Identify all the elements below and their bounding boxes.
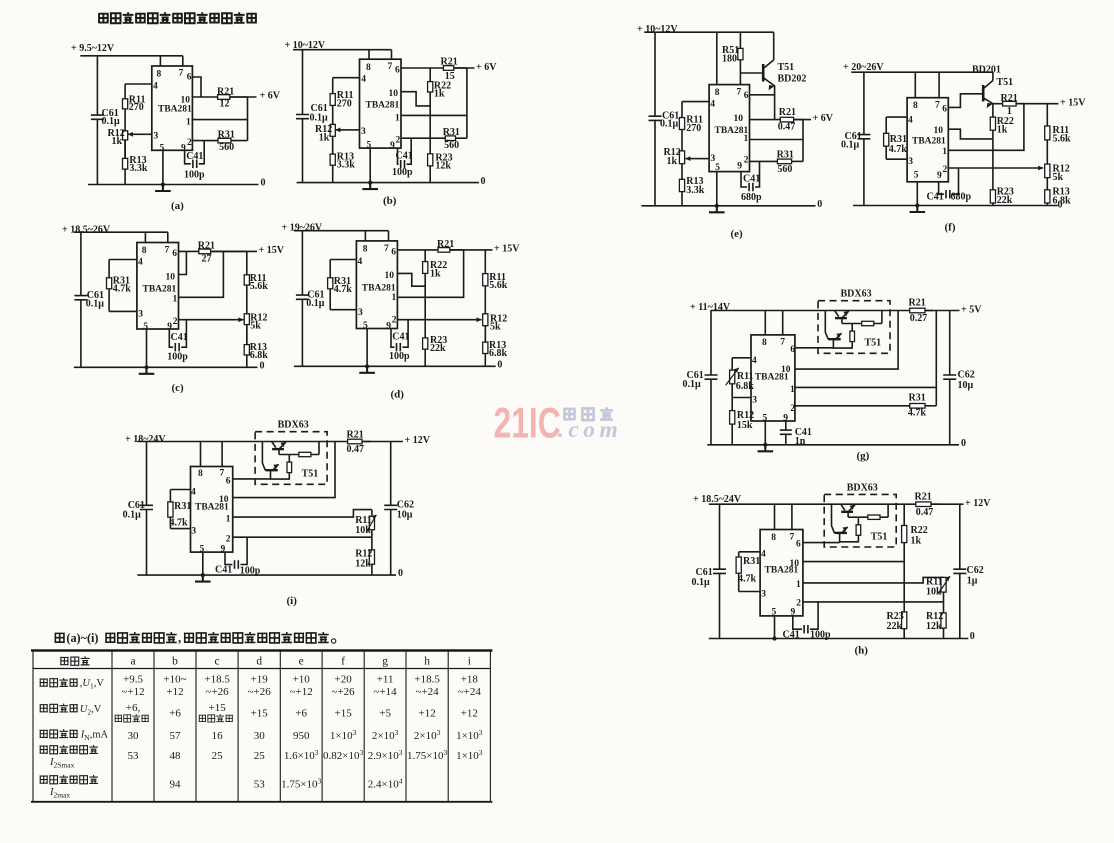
capacitor C41 (h) 100p <box>793 602 818 629</box>
svg-text:TBA281: TBA281 <box>912 137 946 147</box>
svg-text:0: 0 <box>1058 200 1063 211</box>
svg-text:1: 1 <box>744 134 749 144</box>
svg-text:0.1μ: 0.1μ <box>660 119 679 130</box>
svg-text:8: 8 <box>771 533 776 543</box>
svg-text:2×103: 2×103 <box>372 728 399 742</box>
svg-text:7: 7 <box>737 88 742 98</box>
wire (c) left rail <box>80 232 82 367</box>
resistor R31 (d) 4.7k <box>328 260 333 310</box>
svg-text:2×103: 2×103 <box>414 728 441 742</box>
pin 3 <box>761 590 766 600</box>
wire (a) pin10 line to R21 <box>192 96 217 98</box>
svg-text:21IC: 21IC <box>494 400 561 448</box>
wire (b) pin3 to wiper <box>344 129 360 131</box>
IC label TBA281 <box>912 137 946 147</box>
capacitor C62 (g) 10u <box>949 311 951 445</box>
svg-text:I2Smax: I2Smax <box>49 757 75 770</box>
svg-text:3: 3 <box>358 308 363 318</box>
svg-text:4: 4 <box>138 258 143 268</box>
svg-text:10: 10 <box>389 89 399 99</box>
wire (c) top rail <box>74 232 168 242</box>
svg-text:1×103: 1×103 <box>456 748 483 762</box>
svg-text:3: 3 <box>138 310 143 320</box>
wire (c) pin5 down <box>146 329 148 367</box>
svg-text:8: 8 <box>366 63 371 73</box>
svg-text:(d): (d) <box>391 388 405 400</box>
svg-text:+ 10~12V: + 10~12V <box>637 24 678 35</box>
wire (d) pin6 line to R21 <box>397 249 438 251</box>
IC TBA281 (h) <box>760 530 803 616</box>
svg-text:0.82×103: 0.82×103 <box>323 748 363 762</box>
svg-text:+9.5: +9.5 <box>123 674 143 686</box>
wire (b) pin4 to divider <box>333 77 360 79</box>
internal resistor (h) base-emitter <box>848 504 888 519</box>
potentiometer R11 (g) 6.8k adjustable <box>730 358 735 398</box>
pin 8 <box>363 244 368 254</box>
svg-text:3.3k: 3.3k <box>337 159 356 170</box>
svg-text:1k: 1k <box>667 156 678 167</box>
resistor R31 (h) 4.7k <box>736 552 741 592</box>
svg-text:1×103: 1×103 <box>456 728 483 742</box>
node 0 label (f) <box>1058 200 1063 211</box>
label (e) <box>731 228 744 240</box>
pin 3 <box>361 127 366 137</box>
wire (c) pin4 to R31 <box>109 259 137 261</box>
node 0 label (h) <box>970 631 975 642</box>
op-amp U1: IC TBA281 (a) <box>152 66 193 150</box>
svg-text:+15: +15 <box>334 708 352 720</box>
svg-text:8: 8 <box>913 101 918 111</box>
resistor R31 (a) 560 <box>218 138 248 143</box>
pin 2 <box>187 138 192 148</box>
wire (g) pin3 line <box>732 397 751 399</box>
wire (a) pin4 to divider <box>125 83 152 85</box>
svg-text:8: 8 <box>142 246 147 256</box>
transistor T51 (g) inside module <box>825 311 853 349</box>
svg-text:C41: C41 <box>171 332 188 343</box>
svg-text:TBA281: TBA281 <box>366 101 400 111</box>
node +12V label (i) <box>405 435 431 446</box>
svg-text:R21: R21 <box>347 429 364 440</box>
svg-text:2.4×104: 2.4×104 <box>368 777 403 791</box>
resistor R21 (e) 0.47 <box>780 117 803 122</box>
svg-text:15k: 15k <box>737 420 753 431</box>
wire (g) pin2 line to R31 <box>795 405 910 407</box>
capacitor C61 (h) <box>713 569 726 573</box>
capacitor C61 (a) <box>91 115 104 119</box>
svg-text:R22: R22 <box>911 525 928 536</box>
node 0 label (g) <box>961 438 966 449</box>
pin 7 <box>388 62 393 72</box>
pin 1 <box>226 514 231 524</box>
wire (d) top rail <box>294 231 389 241</box>
svg-text:4.7k: 4.7k <box>170 517 189 528</box>
svg-text:+10~: +10~ <box>163 674 186 686</box>
svg-text:0: 0 <box>398 568 403 579</box>
IC label TBA281 <box>366 101 400 111</box>
resistor R12 (h) 12k <box>941 602 946 639</box>
svg-text:4: 4 <box>710 100 715 110</box>
wire (f) R21 to +15V <box>1016 103 1058 105</box>
wire (b) pin5 down <box>369 148 371 183</box>
pin 3 <box>908 157 913 167</box>
svg-text:2: 2 <box>173 317 178 327</box>
IC TBA281 (d) <box>356 241 397 329</box>
svg-text:10: 10 <box>781 365 791 375</box>
svg-text:53: 53 <box>254 779 266 791</box>
svg-text:4.7k: 4.7k <box>908 407 927 418</box>
svg-text:10: 10 <box>934 126 944 136</box>
pin 6 <box>391 247 396 257</box>
table row: input voltage values <box>123 674 143 686</box>
wire (h) pin5 down <box>774 616 776 639</box>
svg-text:1: 1 <box>392 293 397 303</box>
svg-text:T51: T51 <box>778 62 795 73</box>
svg-text:4.7k: 4.7k <box>334 284 353 295</box>
potentiometer R12 (e) 1k <box>679 130 684 164</box>
potentiometer R11 (i) 10k adjustable <box>369 510 374 538</box>
svg-text:4: 4 <box>761 549 766 559</box>
pin 8 <box>157 70 162 80</box>
wire (h) R21 to +12V output <box>931 503 964 505</box>
resistor R12 (i) 12k <box>369 537 374 575</box>
svg-text:27: 27 <box>202 253 212 264</box>
internal resistor (i) vertical <box>287 455 292 480</box>
resistor R23 (d) 22k <box>423 338 428 366</box>
svg-text:5: 5 <box>160 144 165 154</box>
svg-text:TBA281: TBA281 <box>362 284 396 294</box>
svg-text:C41: C41 <box>927 191 944 202</box>
svg-text:3: 3 <box>711 154 716 164</box>
capacitor C61 (f) <box>857 135 870 139</box>
svg-text:0.1μ: 0.1μ <box>102 116 121 127</box>
wire (a) output vertical <box>247 97 249 141</box>
svg-text:R21: R21 <box>437 239 454 250</box>
pin 9 <box>937 171 942 181</box>
svg-text:5k: 5k <box>1053 172 1064 183</box>
wire (a) pin1 line <box>192 119 247 121</box>
pin 9 <box>783 414 788 424</box>
svg-text:I2max: I2max <box>49 787 70 800</box>
svg-text:+18.5: +18.5 <box>204 674 230 686</box>
wire (g) output down-link (feedback) <box>935 311 937 406</box>
wire (f) pin5 down <box>916 182 918 206</box>
resistor R21 (c) 27 <box>199 249 247 254</box>
svg-text:IN,mA: IN,mA <box>80 729 109 742</box>
svg-text:6: 6 <box>942 104 947 114</box>
svg-text:+ 12V: + 12V <box>405 435 431 446</box>
wire (d) pin10 step to R22 branch <box>397 273 425 286</box>
Darlington module BDX63 (g) dashed box <box>818 301 890 354</box>
svg-text:+ 12V: + 12V <box>965 498 991 509</box>
wire (i) R31 to pin3 <box>170 528 190 530</box>
pin 5 <box>914 171 919 181</box>
resistor R12 (g) 15k <box>730 398 735 445</box>
svg-text:5.6k: 5.6k <box>1053 133 1072 144</box>
svg-text:3: 3 <box>361 127 366 137</box>
svg-text:C62: C62 <box>958 370 975 381</box>
wire (b) pin10 step to R22 branch <box>401 92 430 106</box>
svg-text:3: 3 <box>154 132 159 142</box>
pin 4 <box>358 257 363 267</box>
transistor type label BD201 (f) <box>972 64 1001 75</box>
svg-text:R21: R21 <box>779 107 796 118</box>
svg-text:(b): (b) <box>383 195 397 207</box>
wire (d) R22 branch down to R23 <box>424 286 426 338</box>
label (b) <box>383 195 397 207</box>
svg-text:7: 7 <box>384 244 389 254</box>
svg-text:25: 25 <box>254 750 266 762</box>
wire (a) pin3 to R12 wiper <box>136 133 152 135</box>
svg-text:(h): (h) <box>855 644 869 656</box>
svg-text:6.8k: 6.8k <box>489 348 508 359</box>
svg-text:R31: R31 <box>218 129 235 140</box>
svg-text:+11: +11 <box>377 674 394 686</box>
svg-text:5: 5 <box>914 171 919 181</box>
pin 4 <box>710 100 715 110</box>
potentiometer R11 (h) 10k adjustable <box>941 577 946 602</box>
ground (e) <box>709 204 725 213</box>
svg-text:12: 12 <box>220 99 230 110</box>
resistor R31 (b) 560 <box>445 136 467 141</box>
svg-text:+6,: +6, <box>126 702 141 714</box>
svg-text:+ 18~24V: + 18~24V <box>125 434 166 445</box>
wire (h) R31 to pin3 <box>739 591 760 593</box>
svg-text:+ 18.5~26V: + 18.5~26V <box>62 224 111 235</box>
svg-text:25: 25 <box>212 750 224 762</box>
wire (b) top rail <box>293 50 392 60</box>
wire (i) pin4 to R31 <box>170 489 190 491</box>
svg-text:6: 6 <box>796 540 801 550</box>
svg-text:5: 5 <box>715 163 720 173</box>
wire (a) top rail <box>80 56 183 66</box>
svg-text:h: h <box>424 656 430 668</box>
potentiometer R12 (b) 1k <box>330 124 335 154</box>
svg-text:1×103: 1×103 <box>330 728 357 742</box>
pin 4 <box>191 487 196 497</box>
svg-text:4.7k: 4.7k <box>113 283 132 294</box>
pin 1 <box>744 134 749 144</box>
svg-text:+10: +10 <box>293 674 311 686</box>
resistor R22 (f) 1k <box>990 104 995 139</box>
svg-text:R31: R31 <box>443 127 460 138</box>
svg-text:8: 8 <box>363 244 368 254</box>
wire (e) pin4 to divider <box>682 101 709 103</box>
svg-text:7: 7 <box>179 69 184 79</box>
wire (b) left rail <box>302 50 304 183</box>
resistor R21 (a) 12 <box>218 95 248 100</box>
junction (h) pin5 <box>772 636 776 640</box>
pin 4 <box>361 75 366 85</box>
wire (c) pin10 jog up <box>179 251 187 274</box>
resistor R11 (e) 270 <box>679 102 684 130</box>
svg-text:10μ: 10μ <box>958 380 974 391</box>
svg-text:6.8k: 6.8k <box>736 381 755 392</box>
wire (f) emitter junction to R21 <box>993 103 1003 105</box>
wire (c) R31 to pin3 <box>109 310 137 312</box>
svg-text:7: 7 <box>790 532 795 542</box>
node 0 label (b) <box>481 176 486 187</box>
node +10~12V input label (b) <box>285 40 326 51</box>
resistor R13 (f) 6.8k <box>1045 190 1050 206</box>
svg-text:5.6k: 5.6k <box>250 281 268 292</box>
svg-text:d: d <box>256 656 262 668</box>
svg-text:R31: R31 <box>174 501 191 512</box>
wire (b) output vertical <box>466 68 468 138</box>
svg-text:(e): (e) <box>731 228 744 240</box>
capacitor C41 (g) 1n <box>785 421 787 445</box>
pin 6 <box>942 104 947 114</box>
pin 5 <box>367 141 372 151</box>
svg-text:+6: +6 <box>295 708 307 720</box>
pin 6 <box>187 73 192 83</box>
svg-text:~+26: ~+26 <box>248 686 272 698</box>
ground (i) <box>195 573 211 582</box>
svg-text:~+26: ~+26 <box>206 686 230 698</box>
svg-text:9: 9 <box>937 171 942 181</box>
pin 10 <box>934 126 944 136</box>
wire (a) bottom rail <box>88 184 259 186</box>
BDX63 label (i) <box>278 420 309 431</box>
wire (f) bottom rail <box>853 205 1058 207</box>
pin 3 <box>711 154 716 164</box>
pin 8 <box>913 101 918 111</box>
wire (g) pin10 line and up-link <box>795 311 898 370</box>
pin 9 <box>390 141 395 151</box>
svg-text:R21: R21 <box>909 297 926 308</box>
svg-text:950: 950 <box>293 730 310 742</box>
svg-text:T51: T51 <box>871 531 888 542</box>
pin 9 <box>221 544 226 554</box>
transistor T51 (h) inside module <box>832 504 860 542</box>
svg-text:1.6×103: 1.6×103 <box>284 748 319 762</box>
node 0 label (c) <box>260 361 265 372</box>
svg-text:10k: 10k <box>926 586 942 597</box>
wire (d) pin1 line and up-link <box>397 250 463 297</box>
pin 9 <box>737 162 742 172</box>
pin 2 <box>396 135 401 145</box>
svg-text:0: 0 <box>497 360 502 371</box>
table row: output voltage U2,V label <box>40 704 78 713</box>
svg-text:+12: +12 <box>418 708 435 720</box>
svg-text:3: 3 <box>908 157 913 167</box>
pin 10 <box>734 114 744 124</box>
svg-text:,: , <box>178 631 181 645</box>
svg-text:22k: 22k <box>887 621 903 632</box>
wire (f) pin6 step to base <box>948 94 982 108</box>
svg-text:+ 9.5~12V: + 9.5~12V <box>71 43 115 54</box>
svg-text:0.1μ: 0.1μ <box>841 140 860 151</box>
ground (a) <box>155 182 171 191</box>
IC TBA281 (g) <box>751 335 795 421</box>
node +5V label (g) <box>961 304 982 315</box>
wire (e) left rail <box>654 32 656 206</box>
node +6V label (e) <box>813 113 834 124</box>
node +15V label (f) <box>1060 97 1086 108</box>
svg-text:TBA281: TBA281 <box>143 285 177 295</box>
pin 8 <box>198 469 203 479</box>
wire (b) R21 to +6V output <box>454 67 475 69</box>
capacitor C41 (i) 100p <box>225 537 247 564</box>
svg-text:10: 10 <box>219 495 229 505</box>
svg-text:10: 10 <box>385 271 395 281</box>
svg-text:1.75×103: 1.75×103 <box>281 777 321 791</box>
internal resistor (g) base-emitter <box>842 311 882 326</box>
svg-text:22k: 22k <box>997 195 1013 206</box>
node 0 label (e) <box>817 199 822 210</box>
svg-text:3.3k: 3.3k <box>686 185 705 196</box>
pin 9 <box>181 144 186 154</box>
svg-text:10: 10 <box>790 559 800 569</box>
svg-text:+ 6V: + 6V <box>476 62 497 73</box>
table row: input voltage U1,V label <box>40 678 78 687</box>
wire (g) left rail <box>710 311 712 445</box>
wire (i) top rail <box>137 442 335 467</box>
svg-text:2: 2 <box>744 156 749 166</box>
resistor R11 (c) 5.6k <box>244 251 249 285</box>
wire (d) pin5 down <box>366 329 368 367</box>
svg-text:680p: 680p <box>741 192 762 203</box>
wire (b) bottom rail <box>297 182 479 184</box>
svg-text:1: 1 <box>942 147 947 157</box>
watermark .com (light blue) <box>558 417 622 443</box>
resistor R11 (a) 270 <box>123 84 128 131</box>
capacitor C41 (a) 100p <box>185 141 205 164</box>
node +15V label (c) <box>259 245 285 256</box>
capacitor C61 (i) <box>140 505 153 509</box>
ground (d) <box>359 364 375 373</box>
wire (a) pin6 jog to pin10 line <box>192 77 201 97</box>
resistor R11 (d) 5.6k <box>483 250 488 286</box>
svg-text:4: 4 <box>752 356 757 366</box>
pin 5 <box>143 322 148 332</box>
svg-text:0.27: 0.27 <box>910 313 928 324</box>
svg-text:2: 2 <box>396 135 401 145</box>
svg-text:6: 6 <box>744 91 749 101</box>
svg-text:100p: 100p <box>167 352 188 363</box>
IC label TBA281 <box>715 126 749 136</box>
resistor R23 (b) 12k <box>428 138 433 182</box>
pin 8 <box>366 63 371 73</box>
svg-text:+ 6V: + 6V <box>260 91 281 102</box>
svg-text:+ 6V: + 6V <box>813 113 834 124</box>
pin 7 <box>384 244 389 254</box>
wire (f) left rail <box>863 72 865 205</box>
label (d) <box>391 388 405 400</box>
svg-text:+19: +19 <box>251 674 269 686</box>
wire (f) pin2 line with wiper arrow <box>948 167 1038 169</box>
svg-text:7: 7 <box>780 337 785 347</box>
resistor R22 (h) 1k <box>902 504 907 561</box>
pin 10 <box>781 365 791 375</box>
resistor R13 (d) 6.8k <box>483 326 488 367</box>
capacitor C41 (b) 100p <box>398 138 412 164</box>
svg-text:T51: T51 <box>865 338 882 349</box>
svg-text:94: 94 <box>170 779 182 791</box>
svg-text:10μ: 10μ <box>397 510 413 521</box>
ground (g) <box>758 443 774 452</box>
svg-text:8: 8 <box>198 469 203 479</box>
table row: max short-circuit current label <box>40 745 98 754</box>
svg-text:12k: 12k <box>435 160 451 171</box>
table row: rated current values <box>128 730 140 742</box>
svg-text:5k: 5k <box>250 320 261 331</box>
IC TBA281 (c) <box>137 243 179 330</box>
pin 1 <box>392 293 397 303</box>
wire (f) pin4 to R31 <box>886 116 907 118</box>
svg-text:270: 270 <box>686 123 701 134</box>
T51 label (i) <box>302 469 319 480</box>
